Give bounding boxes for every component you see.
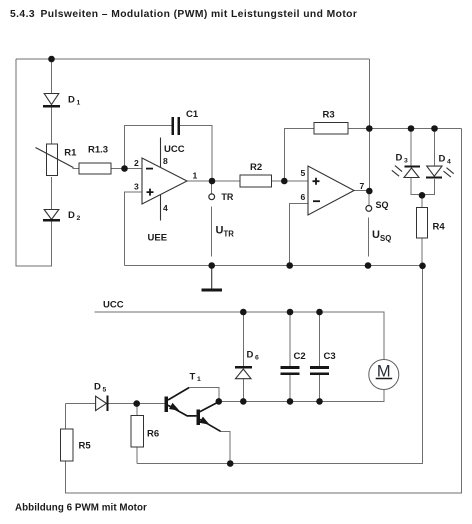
wire D1 anode	[51, 59, 53, 94]
diode D6	[235, 366, 252, 369]
LED D4	[427, 166, 442, 176]
junction node R3 top	[366, 125, 373, 132]
svg-text:3: 3	[404, 158, 408, 165]
pin 4 UEE supply	[160, 195, 162, 221]
junction node pin5	[281, 178, 288, 185]
wire UCC rail lower	[95, 312, 385, 360]
resistor R1.3	[79, 163, 111, 174]
diode D5	[96, 396, 107, 410]
wire R5 top	[65, 404, 67, 429]
wire comparator rail down to emitter line	[137, 266, 423, 464]
wire wiper to R1.3	[73, 168, 80, 170]
svg-text:R2: R2	[250, 162, 262, 173]
wire motor bottom to collector rail	[219, 389, 384, 401]
wire node to R4	[421, 195, 423, 208]
junction node R4 bottom rail	[419, 263, 426, 270]
wire D6 column	[242, 312, 244, 366]
junction node UCC C3	[316, 309, 323, 316]
wire node to SQ terminal	[368, 191, 370, 205]
wire node to TR terminal	[211, 181, 213, 194]
junction node top rail / D1	[48, 56, 55, 63]
junction node D3 top	[408, 125, 415, 132]
resistor R2	[240, 175, 272, 187]
wire R4 bottom	[421, 238, 423, 266]
svg-text:1: 1	[77, 100, 81, 107]
T1b collector stroke	[200, 402, 219, 412]
R1 wiper arm	[36, 148, 74, 168]
svg-text:6: 6	[255, 355, 259, 362]
ground	[211, 266, 213, 289]
wire C3 column	[319, 312, 321, 366]
junction node C3 bottom	[316, 398, 323, 405]
junction node pin6 rail	[286, 262, 293, 269]
svg-text:SQ: SQ	[376, 200, 389, 210]
svg-text:2: 2	[77, 215, 81, 222]
diode D1	[44, 94, 59, 105]
svg-text:3: 3	[134, 182, 139, 192]
svg-text:D: D	[439, 154, 446, 165]
svg-text:5: 5	[103, 387, 107, 394]
svg-text:5.4.3: 5.4.3	[10, 9, 35, 20]
wire D3 top	[410, 129, 412, 167]
wire R1.3 to opamp pin2	[111, 168, 142, 170]
svg-text:2: 2	[134, 158, 139, 168]
wire C2 column	[289, 312, 291, 366]
wire D4 top	[434, 129, 436, 167]
junction node T1 base	[133, 400, 140, 407]
wire right edge loop	[66, 129, 462, 494]
capacitor C1	[171, 117, 174, 135]
wire top rail drop to U2 output	[368, 59, 370, 191]
junction node T1 collector	[216, 398, 223, 405]
wire T1 emitter down	[220, 431, 230, 463]
svg-text:R1: R1	[64, 148, 77, 159]
wire pin6 to bottom rail	[290, 204, 308, 266]
svg-text:UEE: UEE	[148, 233, 168, 244]
wire opamp U1 output pin1	[187, 180, 240, 182]
T1b base bar	[196, 409, 200, 425]
junction node TR output	[209, 178, 216, 185]
junction node SQ output	[366, 188, 373, 195]
svg-text:7: 7	[360, 181, 365, 191]
svg-text:5: 5	[301, 168, 306, 178]
junction node D3 D4 bottom	[419, 192, 426, 199]
junction node D4 top	[431, 125, 438, 132]
wire U_SQ sense line	[367, 218, 369, 257]
svg-text:D: D	[68, 95, 75, 106]
svg-text:R5: R5	[79, 441, 92, 452]
wire R6 top	[136, 404, 138, 416]
T1a base bar	[165, 396, 169, 412]
svg-text:UCC: UCC	[164, 144, 185, 155]
junction node U_SQ rail	[365, 262, 372, 269]
junction node UCC C2	[287, 309, 294, 316]
svg-text:TR: TR	[221, 192, 233, 202]
svg-text:C2: C2	[294, 351, 306, 362]
T1b emitter stroke	[200, 419, 221, 431]
wire U_TR sense line	[211, 207, 213, 257]
svg-text:1: 1	[197, 376, 201, 383]
pin 8 UCC supply	[160, 138, 162, 168]
node TR terminal	[209, 194, 215, 200]
svg-text:R4: R4	[433, 222, 446, 233]
wire bottom rail	[125, 265, 423, 267]
junction node emitter rail	[227, 460, 234, 467]
wire pin3 to ground rail	[125, 192, 143, 266]
svg-text:R3: R3	[323, 110, 335, 121]
svg-text:4: 4	[447, 159, 451, 166]
wire D1-R1	[51, 107, 53, 144]
wire C1 to output node	[180, 126, 212, 182]
T1a emitter stroke	[168, 405, 196, 416]
svg-text:Pulsweiten – Modulation (PWM): Pulsweiten – Modulation (PWM) mit Leistu…	[41, 9, 358, 20]
wire T1 collector loop	[189, 388, 219, 402]
svg-text:C3: C3	[324, 351, 336, 362]
svg-text:C1: C1	[186, 109, 199, 120]
junction node D6 bottom	[240, 398, 247, 405]
svg-text:R6: R6	[147, 429, 159, 440]
resistor R5	[60, 429, 73, 461]
capacitor C2	[281, 366, 300, 369]
wire R3 right rail	[348, 128, 461, 130]
T1a collector stroke	[168, 388, 189, 400]
potentiometer R1	[47, 144, 58, 176]
wire R1-D2	[51, 177, 53, 210]
wire D5 input	[66, 403, 96, 405]
junction node C2 bottom	[287, 398, 294, 405]
LED D3	[405, 165, 420, 167]
wire top rail	[16, 58, 369, 60]
resistor R3	[314, 123, 348, 135]
svg-text:6: 6	[301, 192, 306, 202]
svg-text:U: U	[216, 225, 224, 237]
svg-text:D: D	[94, 382, 101, 393]
wire D5 to T1 base	[109, 403, 166, 405]
junction node pin2	[121, 165, 128, 172]
op-amp U1	[142, 158, 187, 204]
wire U2 output pin7	[354, 190, 369, 192]
junction node UCC D6	[240, 309, 247, 316]
svg-text:R1.3: R1.3	[88, 145, 108, 156]
wire R2 to opamp pin5	[272, 180, 309, 182]
motor M	[369, 360, 399, 390]
junction node ground rail	[208, 262, 215, 269]
svg-text:D: D	[247, 350, 254, 361]
svg-text:U: U	[372, 229, 380, 241]
svg-text:T: T	[190, 372, 196, 383]
diode D2	[44, 210, 59, 220]
svg-text:SQ: SQ	[380, 234, 391, 243]
resistor R6	[131, 416, 144, 448]
node SQ terminal	[366, 206, 372, 212]
wire C1 feedback loop	[125, 126, 172, 169]
svg-text:Abbildung 6 PWM mit Motor: Abbildung 6 PWM mit Motor	[15, 503, 147, 514]
wire left rail	[16, 59, 52, 266]
wire R6 bottom	[136, 447, 138, 464]
capacitor C3	[310, 366, 329, 369]
wire D3-D4 to R4 node	[411, 178, 435, 195]
svg-text:4: 4	[163, 203, 168, 213]
resistor R4	[417, 208, 428, 239]
svg-text:D: D	[396, 153, 403, 164]
svg-text:8: 8	[163, 156, 168, 166]
op-amp U2	[308, 166, 354, 215]
svg-text:UCC: UCC	[103, 300, 124, 311]
wire R3 feedback left	[284, 129, 314, 182]
svg-text:1: 1	[193, 171, 198, 181]
svg-text:TR: TR	[224, 230, 235, 239]
svg-text:D: D	[68, 210, 75, 221]
